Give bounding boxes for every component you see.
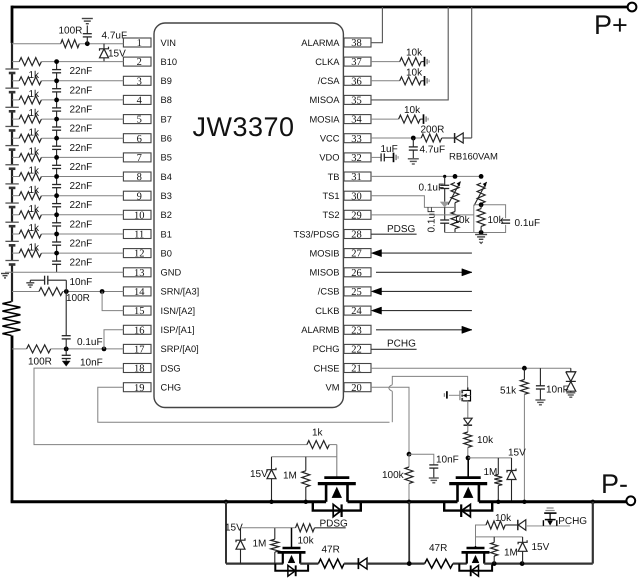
wire B1 row [12,233,19,235]
pin 14 SRN/[A3] [123,287,151,296]
svg-text:22nF: 22nF [70,162,93,173]
svg-text:31: 31 [351,172,362,183]
resistor 1M (PCHG) [493,537,495,543]
svg-text:34: 34 [351,115,362,126]
svg-text:10k: 10k [406,48,423,59]
resistor 51k [523,368,525,379]
svg-text:10k: 10k [404,105,421,116]
connector pin (MOSIA) [423,114,425,124]
wire CLKA/CSA row [371,80,400,82]
svg-text:ALARMA: ALARMA [301,38,340,48]
wire B6 row [12,137,19,139]
resistor 1k (B7) [19,115,41,123]
pin 17 SRP/[A0] [123,344,151,353]
thermistor NTC1 [451,183,459,203]
zener 15V (PDSG) [240,528,242,540]
svg-text:TB: TB [328,172,340,182]
svg-text:JW3370: JW3370 [192,112,294,142]
wire B8 row [12,99,19,101]
svg-text:10nF: 10nF [70,277,93,288]
capacitor 22nF 1 [56,62,58,70]
wire DSG from pin 18 [34,368,307,445]
junction row 10 [54,212,59,217]
svg-text:B0: B0 [161,248,172,258]
svg-text:22nF: 22nF [70,181,93,192]
wire CLKA/CSA row [371,61,400,63]
svg-text:100k: 100k [382,470,405,481]
svg-text:2: 2 [137,57,142,68]
svg-text:1M: 1M [253,539,267,550]
svg-text:3: 3 [137,76,142,87]
ground (SRN cap) [26,282,34,284]
pin 19 CHG [123,383,151,392]
svg-text:47R: 47R [322,545,340,556]
terminal P- [626,496,635,505]
svg-text:22nF: 22nF [70,200,93,211]
ground (CHSE cap) [535,399,545,401]
resistor 100k [408,454,410,467]
svg-text:47R: 47R [429,543,447,554]
svg-text:6: 6 [137,134,142,145]
svg-text:15V: 15V [508,448,526,459]
pin 5 B7 [123,115,151,124]
svg-text:4: 4 [137,96,143,107]
svg-text:1M: 1M [504,547,518,558]
svg-text:8: 8 [137,172,142,183]
capacitor 22nF 7 [56,177,58,185]
battery cell 5 [10,145,14,150]
pin 28 TS3/PDSG [344,230,371,239]
junction rail x=271.5 [269,500,273,504]
resistor 1k (B3) [19,192,41,200]
pin 12 B0 [123,249,151,258]
svg-text:MOSIB: MOSIB [310,248,340,258]
pin 26 MISOB [344,268,371,277]
svg-text:P+: P+ [594,10,628,40]
svg-text:1: 1 [137,38,142,49]
svg-text:B1: B1 [161,229,172,239]
junction row 2 [54,59,59,64]
capacitor 0.1uF (TS2) [501,219,510,221]
svg-text:22nF: 22nF [70,66,93,77]
wire TS2 from pin 29 [371,214,474,216]
svg-text:10nF: 10nF [546,385,569,396]
wire VCC row [371,137,421,139]
svg-text:DSG: DSG [161,363,181,373]
wire B7 row [12,118,19,120]
wire SRP row [12,348,27,350]
resistor 1k (B10) [19,58,41,66]
pin 3 B9 [123,76,151,85]
svg-text:PDSG: PDSG [320,519,349,530]
capacitor 0.1uF (SRN-SRP) [65,292,67,336]
resistor 1k (B0) [19,249,41,257]
svg-text:/CSB: /CSB [318,287,340,297]
pin 10 B2 [123,210,151,219]
svg-text:GND: GND [161,268,182,278]
pin 37 CLKA [344,57,371,66]
pin 31 TB [344,172,371,181]
wire arrow pin 27 [376,252,472,254]
svg-text:1uF: 1uF [381,144,398,155]
svg-text:32: 32 [351,153,362,164]
wire arrow pin 23 [376,329,472,331]
junction row 8 [54,174,59,179]
diode RB160VAM [454,133,456,143]
svg-text:36: 36 [351,76,362,87]
resistor 1k (B8) [19,96,41,104]
pin 11 B1 [123,230,151,239]
svg-text:10nF: 10nF [80,358,103,369]
svg-text:100R: 100R [28,357,52,368]
svg-text:B6: B6 [161,134,172,144]
wire MISOA to P+ [371,7,448,100]
svg-text:30: 30 [351,191,362,202]
svg-text:CHSE: CHSE [314,363,340,373]
PCHG net tiny FET symbol [547,507,554,509]
svg-text:10k: 10k [454,215,471,226]
resistor 10k (CHG gate) [464,432,472,447]
junction rail x=524.4 [522,500,526,504]
svg-text:12: 12 [134,249,145,260]
pin 13 GND [123,268,151,277]
svg-text:21: 21 [351,364,362,375]
battery cell 7 [10,184,14,189]
wire arrow pin 25 [376,290,472,292]
svg-text:P-: P- [601,469,628,499]
svg-text:22nF: 22nF [70,124,93,135]
wire B10 row [12,61,19,63]
svg-text:SRN/[A3]: SRN/[A3] [161,287,200,297]
svg-text:15: 15 [134,306,145,317]
svg-text:22nF: 22nF [70,143,93,154]
junction row 11 [54,232,59,237]
svg-text:PCHG: PCHG [387,339,416,350]
svg-text:17: 17 [134,345,145,356]
junction rail x=592.8 [591,500,595,504]
diode (CHG driver) [464,418,473,424]
resistor 10k (MOSIA) [371,118,399,120]
svg-text:22nF: 22nF [70,258,93,269]
transistor Q2 CHG power FET [467,458,469,478]
wire PDSG branch left [225,502,227,564]
capacitor 10nF (SRN) [65,280,67,291]
svg-text:ISP/[A1]: ISP/[A1] [161,325,195,335]
transistor Q3 PDSG FET [291,528,293,548]
svg-text:0.1uF: 0.1uF [427,207,438,233]
resistor 10k [400,77,422,85]
svg-text:PCHG: PCHG [313,344,340,354]
node CHG gate [466,456,471,461]
ground (TS2) [475,234,487,236]
battery cell 6 [10,164,14,169]
svg-text:ALARMB: ALARMB [301,325,339,335]
svg-text:VM: VM [326,383,340,393]
wire TB row [371,175,481,177]
svg-text:MOSIA: MOSIA [310,114,341,124]
pin 35 MISOA [344,95,371,104]
resistor 1k (B9) [19,77,41,85]
capacitor 22nF 6 [56,157,58,165]
zener 15V (PCHG) [522,537,524,542]
pin 6 B6 [123,134,151,143]
svg-text:0.1uF: 0.1uF [419,182,445,193]
svg-text:0.1uF: 0.1uF [77,337,103,348]
svg-text:200R: 200R [421,125,445,136]
svg-text:11: 11 [134,230,144,241]
pin 18 DSG [123,364,151,373]
zener 15V (CHG gate) [511,458,513,470]
left border B+ [11,6,14,43]
svg-text:35: 35 [351,96,362,107]
wire PCHG right edge [592,502,594,564]
svg-text:15V: 15V [225,523,243,534]
resistor 1M (CHG gate) [497,458,499,475]
capacitor 4.7uF (VCC) [412,138,414,147]
svg-text:10: 10 [134,210,145,221]
svg-text:15V: 15V [250,469,268,480]
svg-text:28: 28 [351,230,362,241]
wire B0 row [12,252,19,254]
pin 9 B3 [123,191,151,200]
svg-text:RB160VAM: RB160VAM [449,152,498,163]
battery cell 3 [10,107,14,112]
capacitor 22nF 3 [56,100,58,108]
connector pin (VDO) [393,153,395,163]
svg-text:TS1: TS1 [322,191,339,201]
wire diode to P+ [471,7,473,138]
svg-text:7: 7 [137,153,142,164]
resistor 1M (DSG gate) [305,457,307,471]
svg-text:VDO: VDO [319,153,339,163]
battery cell 2 [10,88,14,93]
svg-text:B10: B10 [161,57,178,67]
wire DSG gate node [336,445,338,477]
svg-text:26: 26 [351,268,362,279]
sense resistor RS [2,302,20,336]
wire CHG gate route [391,391,393,422]
resistor 1k (B5) [19,153,41,161]
junction rail x=305.8 [304,500,308,504]
wire PDSG bottom [226,562,283,564]
svg-text:51k: 51k [500,386,517,397]
resistor 10k (PCHG) [486,521,505,529]
resistor 1k (B4) [19,173,41,181]
svg-text:19: 19 [134,383,145,394]
pin 4 B8 [123,95,151,104]
wire ISP branch [104,330,123,349]
resistor 1k (B6) [19,134,41,142]
ground arrow (SRP cap) [62,361,70,366]
svg-text:MISOB: MISOB [310,268,340,278]
battery cell 1 [10,69,14,74]
ground (VCC cap) [408,158,419,160]
svg-text:13: 13 [134,268,145,279]
wire TS2 loop [474,205,506,218]
svg-text:10k: 10k [406,68,423,79]
terminal P+ [628,3,637,12]
svg-text:VCC: VCC [320,134,340,144]
svg-text:5: 5 [137,115,142,126]
wire mid rail to bottom [408,502,410,564]
capacitor 1uF (VDO) [371,156,381,158]
svg-text:B5: B5 [161,153,172,163]
wire CHSE row [371,367,571,369]
svg-text:25: 25 [351,287,362,298]
wire VIN row [12,43,61,45]
svg-text:1k: 1k [312,428,324,439]
svg-text:/CSA: /CSA [318,76,340,86]
zener D1 15V (VIN-B10) [103,44,105,49]
junction rail x=409 [407,500,411,504]
connector pin [424,57,426,67]
wire ISN branch [102,292,123,311]
net label wire PDSG [315,527,346,529]
pin 16 ISP/[A1] [123,325,151,334]
pin 33 VCC [344,134,371,143]
svg-text:4.7uF: 4.7uF [420,145,446,156]
wire PCHG bottom [484,562,593,564]
resistor 10k [400,58,422,66]
pin 38 ALARMA [344,38,371,47]
diode (PCHG path) [517,520,519,531]
capacitor 22nF 8 [56,196,58,204]
svg-text:B9: B9 [161,76,172,86]
net label PCHG (pin 22) [371,348,417,350]
svg-text:9: 9 [137,191,142,202]
svg-text:1M: 1M [484,467,498,478]
wire TS1 from pin 30 [371,196,455,208]
junction row 12 [54,251,59,256]
capacitor 0.1uF (TS1 lower) [444,207,446,220]
svg-text:ISN/[A2]: ISN/[A2] [161,306,196,316]
ground (TVS) [566,392,575,394]
resistor 1k (B1) [19,230,41,238]
pin 20 VM [344,383,371,392]
junction row 4 [54,98,59,103]
IC U1 JW3370 body [154,23,343,408]
svg-text:27: 27 [351,249,362,260]
capacitor 4.7uF (VIN) [86,38,88,44]
battery cell 9 [10,222,14,227]
resistor 1k (B2) [19,211,41,219]
battery cell 8 [10,203,14,208]
resistor 100R (SRP) [27,345,51,353]
pin 34 MOSIA [344,115,371,124]
resistor 10k (TS2) [477,209,485,227]
svg-text:22nF: 22nF [70,219,93,230]
svg-text:37: 37 [351,57,362,68]
capacitor 0.1uF (TB) [444,176,446,185]
top P+ rail [12,6,627,9]
capacitor 22nF 4 [56,119,58,127]
capacitor 22nF 11 [56,253,58,261]
junction row 5 [54,117,59,122]
svg-text:20: 20 [351,383,362,394]
capacitor 10nF (CHSE) [539,368,541,386]
svg-text:15V: 15V [532,542,550,553]
analog ground arrow (TS1) [440,202,449,207]
svg-text:1M: 1M [283,471,297,482]
svg-text:23: 23 [351,325,362,336]
thick B-/P- rail [11,500,327,503]
wire arrow pin 24 [376,310,472,312]
svg-text:22nF: 22nF [70,239,93,250]
wire B9 row [12,80,19,82]
svg-text:10k: 10k [477,435,494,446]
wire CHG gate node [468,457,512,459]
pin 21 CHSE [344,364,371,373]
transistor Q4 PCHG FET [475,546,477,548]
junction rail x=498.3 [496,500,500,504]
capacitor 22nF 9 [56,215,58,223]
pin 29 TS2 [344,210,371,219]
resistor 1M (PDSG) [274,528,276,539]
connector pin (Q5 gate) [446,391,448,398]
svg-text:24: 24 [351,306,362,317]
battery cell 4 [10,126,14,131]
pin 30 TS1 [344,191,371,200]
ground (VM cap) [429,477,439,479]
TVS zener pair (CHSE) [570,368,572,372]
svg-text:10nF: 10nF [436,455,459,466]
svg-text:MISOA: MISOA [310,95,341,105]
ground (VIN cap) [82,18,93,20]
pin 22 PCHG [344,344,371,353]
svg-text:0.1uF: 0.1uF [515,218,541,229]
wire ALARMA to P+ [371,7,382,43]
svg-text:B2: B2 [161,210,172,220]
battery stack column [11,43,13,302]
svg-text:CLKA: CLKA [315,57,340,67]
wire 100R to pin 1 [79,43,123,45]
capacitor 22nF 2 [56,81,58,89]
wire B2 row [12,214,19,216]
resistor 100R (SRN) [39,288,63,296]
svg-text:100R: 100R [59,26,83,37]
svg-text:CHG: CHG [161,383,182,393]
svg-text:4.7uF: 4.7uF [102,31,128,42]
svg-text:PDSG: PDSG [387,224,416,235]
net label PDSG (pin 28) [371,233,417,235]
svg-text:14: 14 [134,287,145,298]
junction row 6 [54,136,59,141]
wire PCHG gate route [476,525,487,546]
capacitor 22nF 5 [56,138,58,146]
svg-text:100R: 100R [66,293,90,304]
pin 7 B5 [123,153,151,162]
wire B4 row [12,176,19,178]
capacitor 10nF (VM) [409,454,434,465]
capacitor 10nF (SRP) [65,349,67,355]
wire arrow pin 26 [376,271,472,273]
junction rail x=226 [224,500,228,504]
wire B5 row [12,156,19,158]
svg-text:22nF: 22nF [70,85,93,96]
resistor 47R (PDSG) [300,562,318,564]
svg-text:22: 22 [351,345,362,356]
junction row 9 [54,193,59,198]
node VIN cap tap [85,41,90,46]
svg-text:VIN: VIN [161,38,177,48]
wire bottom TS rail [445,232,474,234]
svg-text:B7: B7 [161,114,172,124]
pin 27 MOSIB [344,249,371,258]
zener 15V (DSG gate) [271,457,273,470]
node VM [407,452,412,457]
wire CHG from pin 19 [98,387,390,422]
svg-text:38: 38 [351,38,362,49]
